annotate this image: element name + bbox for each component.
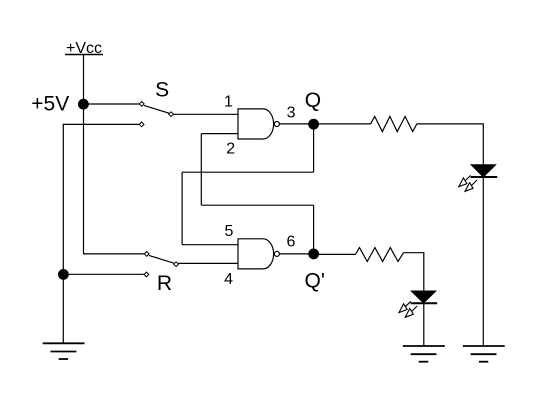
svg-text:S: S bbox=[155, 78, 169, 101]
wire gate U1B output to node Q' bbox=[279, 253, 310, 255]
wire switch S common to gate U1A pin 1 bbox=[174, 113, 239, 115]
wire switch R common to gate U1B pin 4 bbox=[179, 262, 239, 264]
wire node Q' up (feedback) bbox=[313, 205, 315, 254]
wire corner down to LED D2 bbox=[423, 253, 425, 292]
LED D1 light arrow 1 bbox=[459, 175, 471, 186]
node Q' junction dot bbox=[308, 249, 319, 260]
wire feedback Q to gate U1B pin 5 bbox=[182, 244, 238, 246]
wire LED D1 cathode to ground bbox=[482, 177, 484, 346]
wire Vcc rail vertical upper bbox=[83, 55, 85, 104]
wire resistor R2 to corner bbox=[404, 252, 425, 254]
switch S arm bbox=[144, 105, 169, 113]
svg-text:4: 4 bbox=[224, 271, 233, 288]
LED D1 cathode bar bbox=[471, 176, 498, 178]
wire feedback Q vertical left bbox=[181, 172, 183, 245]
wire feedback Q' to gate U1A pin 2 bbox=[201, 133, 238, 135]
svg-text:Q: Q bbox=[305, 89, 321, 112]
svg-text:1: 1 bbox=[224, 93, 233, 110]
svg-text:3: 3 bbox=[287, 104, 296, 121]
wire LED D2 cathode to ground bbox=[423, 303, 425, 346]
node ground rail junction dot bbox=[58, 269, 69, 280]
switch R arm bbox=[149, 255, 174, 263]
switch S lower throw contact (diamond) bbox=[139, 122, 144, 127]
nand gate U1A output bubble bbox=[274, 122, 279, 127]
wire switch S lower throw from ground rail bbox=[63, 123, 139, 125]
svg-text:5: 5 bbox=[224, 223, 233, 240]
LED D2 anode triangle bbox=[411, 291, 436, 303]
wire node Q' to resistor R2 bbox=[314, 253, 355, 255]
wire Vcc rail vertical lower bbox=[83, 104, 85, 254]
svg-text:+5V: +5V bbox=[31, 92, 69, 115]
node +5V junction dot bbox=[78, 99, 89, 110]
switch S contact pole (diamond) bbox=[139, 102, 144, 107]
LED D2 cathode bar bbox=[411, 302, 438, 304]
wire node Q to resistor R1 bbox=[314, 123, 371, 125]
nand gate U1B body bbox=[238, 239, 274, 269]
switch S common contact (diamond) bbox=[169, 112, 174, 117]
LED D2 light arrow 1 bbox=[399, 301, 411, 312]
svg-text:R: R bbox=[157, 272, 172, 295]
wire +5V node to switch S pole bbox=[84, 103, 140, 105]
wire node Q down (feedback) bbox=[313, 124, 315, 172]
ground left bbox=[43, 343, 85, 359]
LED D1 anode triangle bbox=[471, 165, 496, 177]
switch R common contact (diamond) bbox=[174, 262, 179, 267]
svg-text:Q': Q' bbox=[305, 269, 325, 292]
svg-text:2: 2 bbox=[226, 140, 235, 157]
wire feedback Q horizontal bbox=[182, 171, 314, 173]
ground right bbox=[463, 346, 505, 362]
LED D2 light arrow 2 bbox=[405, 306, 417, 317]
wire resistor R1 to corner bbox=[417, 123, 484, 125]
node Q junction dot bbox=[308, 119, 319, 130]
wire ground rail vertical left bbox=[62, 124, 64, 344]
switch R contact pole (diamond) bbox=[144, 252, 149, 257]
nand gate U1A body bbox=[238, 109, 274, 139]
wire corner down to LED D1 bbox=[482, 124, 484, 165]
wire switch R lower throw from ground rail bbox=[63, 273, 144, 275]
power label +Vcc bbox=[65, 40, 103, 57]
resistor R2 bbox=[355, 248, 403, 262]
ground middle bbox=[403, 346, 445, 362]
LED D1 light arrow 2 bbox=[465, 180, 477, 191]
wire gate U1A output to node Q bbox=[279, 123, 310, 125]
resistor R1 bbox=[371, 116, 417, 131]
svg-text:6: 6 bbox=[287, 233, 296, 250]
nand gate U1B output bubble bbox=[274, 251, 279, 256]
switch R lower throw contact (diamond) bbox=[144, 272, 149, 277]
wire feedback Q' vertical left bbox=[200, 134, 202, 206]
wire feedback Q' horizontal bbox=[201, 204, 313, 206]
wire Vcc rail to switch R pole bbox=[84, 253, 145, 255]
